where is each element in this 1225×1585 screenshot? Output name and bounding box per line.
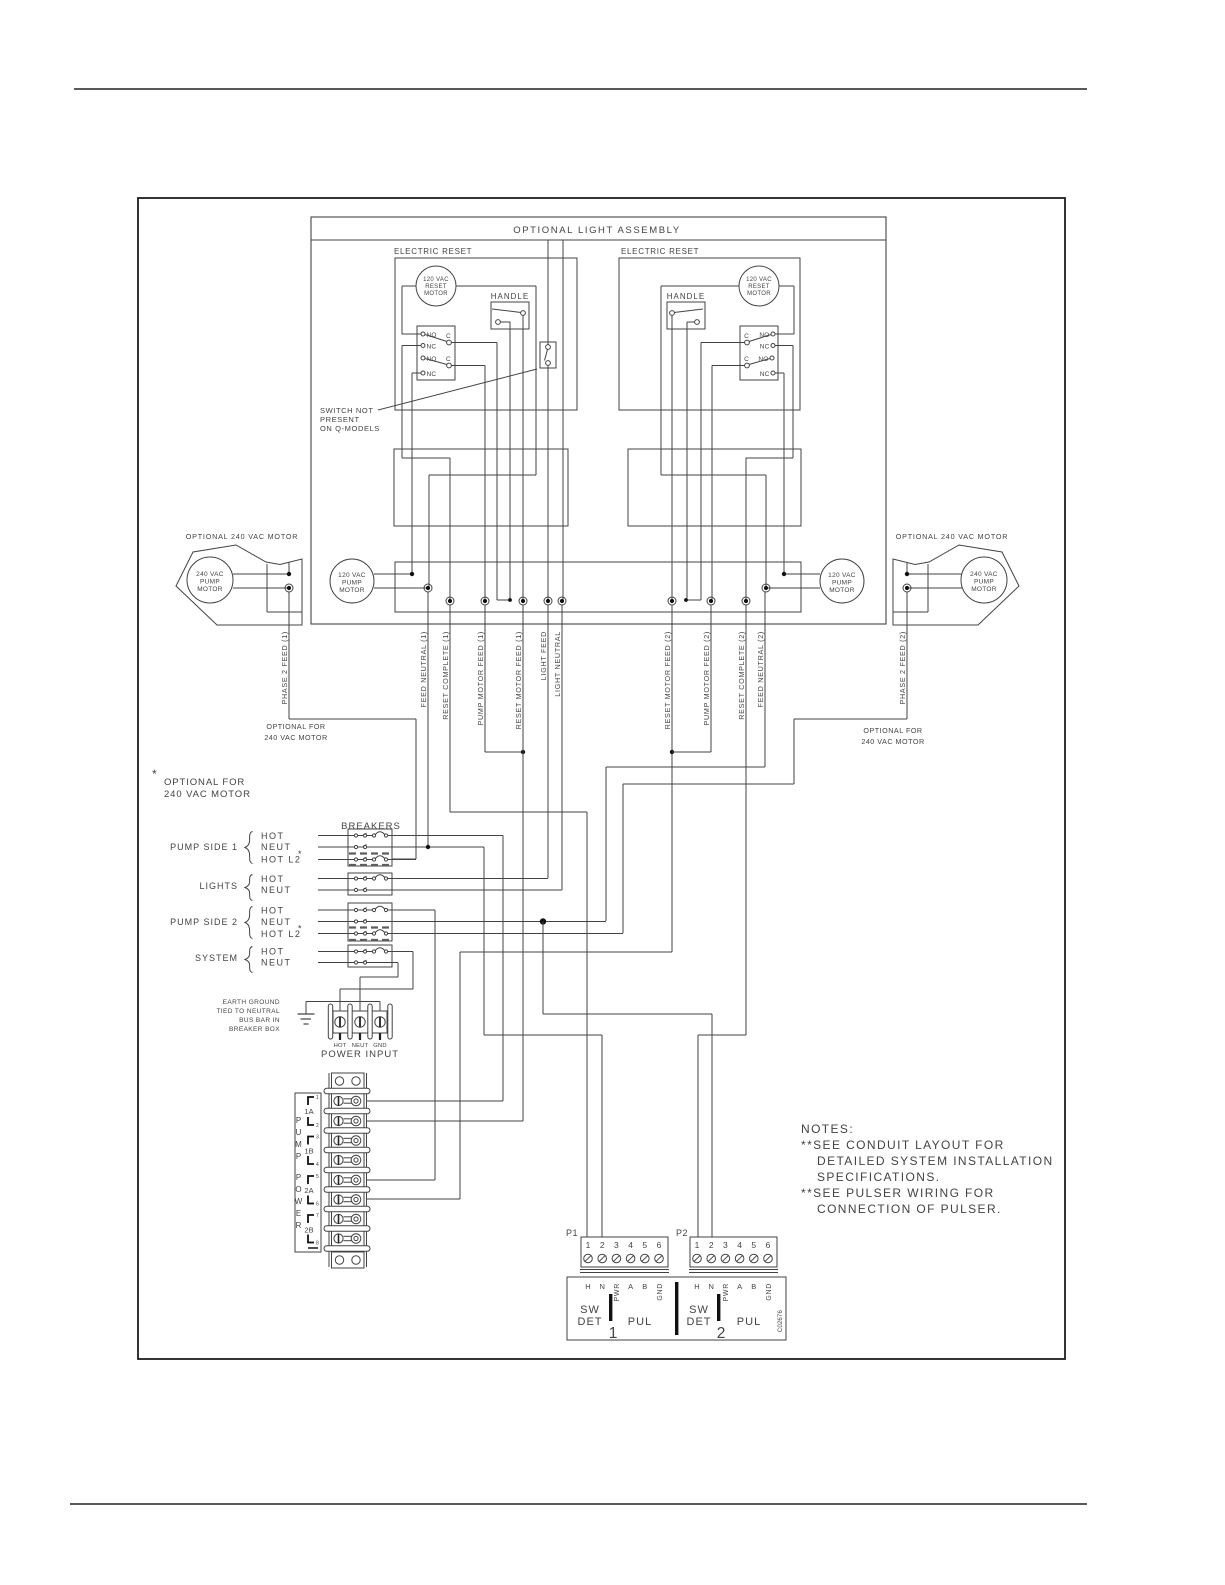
wire light feed drop: [547, 240, 549, 345]
wire reset motor feed 1 run: [522, 605, 524, 1121]
svg-text:1B: 1B: [304, 1147, 313, 1156]
wire C2 right down (pump motor feed 2): [712, 365, 745, 367]
wire 240 motor right neutral: [907, 587, 962, 589]
svg-text:HOT L2: HOT L2: [261, 855, 301, 865]
svg-text:R: R: [296, 1221, 302, 1230]
svg-text:RESET COMPLETE (2): RESET COMPLETE (2): [737, 631, 746, 720]
svg-text:6: 6: [766, 1240, 771, 1250]
callout leader line: [378, 369, 537, 410]
breaker pump side 1 HOT pole: [318, 835, 354, 837]
svg-text:OPTIONAL 240 VAC MOTOR: OPTIONAL 240 VAC MOTOR: [186, 532, 299, 541]
svg-text:PHASE 2 FEED (2): PHASE 2 FEED (2): [898, 631, 907, 705]
terminal light feed: [544, 597, 552, 605]
wire light neutral drop: [562, 240, 564, 601]
svg-text:MOTOR: MOTOR: [424, 291, 448, 297]
electric reset box left: [395, 258, 577, 410]
motor 240 VAC PUMP MOTOR left: [187, 557, 233, 603]
svg-text:240 VAC MOTOR: 240 VAC MOTOR: [861, 737, 924, 746]
svg-text:A: A: [737, 1282, 742, 1291]
svg-text:RESET: RESET: [425, 284, 447, 290]
240 VAC motor outline left: [176, 545, 302, 625]
breaker PUMP SIDE 2 box: [348, 903, 392, 941]
svg-text:GND: GND: [657, 1283, 664, 1301]
wire reset motor right terminal to NO1 right: [779, 285, 794, 287]
svg-text:DET: DET: [687, 1316, 712, 1328]
svg-text:PUMP MOTOR FEED (1): PUMP MOTOR FEED (1): [476, 631, 485, 726]
svg-text:1: 1: [316, 1095, 319, 1101]
svg-text:8: 8: [316, 1241, 319, 1247]
svg-text:*: *: [298, 924, 302, 934]
wire 240 motor left neutral: [233, 587, 289, 589]
wire phase 2 feed 1: [288, 592, 290, 719]
wire pump side 2 HOT L2 stub: [388, 933, 623, 935]
optional light assembly enclosure: [311, 217, 886, 624]
svg-text:2: 2: [600, 1240, 605, 1250]
handle lower contact right: [695, 320, 700, 325]
wire pump side 2 NEUT to P2 pin 2: [542, 922, 544, 1015]
wire reset motor feed 2 run: [671, 605, 673, 952]
wire reset complete 2 run: [745, 605, 747, 1035]
svg-text:NC: NC: [427, 371, 437, 378]
svg-text:2A: 2A: [304, 1186, 313, 1195]
center divider bar: [675, 1282, 678, 1335]
svg-text:*: *: [298, 849, 302, 859]
svg-text:P: P: [296, 1152, 301, 1161]
lamp assembly box left: [394, 449, 568, 526]
svg-text:6: 6: [316, 1202, 319, 1208]
terminal pump motor feed 2: [707, 597, 715, 605]
label box mark: [308, 1247, 318, 1249]
svg-text:PUMP SIDE 2: PUMP SIDE 2: [170, 917, 238, 927]
motor 240 VAC PUMP MOTOR right: [961, 557, 1007, 603]
svg-text:MOTOR: MOTOR: [747, 291, 771, 297]
wire feed neutral 1 drop: [427, 592, 429, 847]
svg-text:2: 2: [316, 1123, 319, 1129]
pump power top plate: [332, 1073, 365, 1089]
junction 240 left hot: [287, 572, 291, 576]
pump power terminal 6: [334, 1195, 343, 1204]
svg-text:SW: SW: [689, 1304, 709, 1316]
brace system: [245, 947, 253, 973]
brace pump side 2: [245, 907, 253, 939]
contact NC2 left: [421, 371, 425, 375]
wire system HOT to power input: [388, 951, 413, 953]
svg-text:**SEE CONDUIT LAYOUT FOR: **SEE CONDUIT LAYOUT FOR: [801, 1138, 1005, 1152]
svg-text:*: *: [152, 767, 157, 781]
wire pump side 2 NEUT bus: [367, 921, 606, 923]
handle switch box right: [667, 302, 705, 329]
wire handle lower contact down: [509, 322, 511, 600]
wire C1 right down: [701, 342, 745, 344]
terminal reset motor feed 1: [519, 597, 527, 605]
svg-text:3: 3: [614, 1240, 619, 1250]
svg-text:P2: P2: [676, 1228, 688, 1238]
svg-text:2: 2: [717, 1325, 726, 1342]
terminal phase 2 feed 1: [285, 584, 293, 592]
svg-text:H: H: [585, 1282, 590, 1291]
wire pump side 1 HOT L2 stub: [388, 859, 416, 861]
svg-text:P: P: [296, 1116, 301, 1125]
wire feed neutral 2 run: [764, 592, 766, 767]
junction pump motor feed 2 / reset motor feed 2: [670, 750, 674, 754]
group 1A brackets: [308, 1097, 314, 1105]
breaker LIGHTS box: [348, 873, 392, 895]
group 2A brackets: [308, 1176, 314, 1184]
pump power terminal 7: [334, 1214, 343, 1223]
svg-text:PUMP: PUMP: [200, 579, 220, 586]
svg-text:120 VAC: 120 VAC: [423, 277, 449, 283]
svg-text:NC: NC: [760, 371, 770, 378]
junction right pump hot: [782, 572, 786, 576]
svg-text:PHASE 2 FEED (1): PHASE 2 FEED (1): [280, 631, 289, 705]
svg-text:LIGHT FEED: LIGHT FEED: [539, 631, 548, 680]
handle switch blade left: [492, 309, 521, 313]
wire right pump motor hot: [784, 573, 820, 575]
page top rule: [74, 88, 1087, 90]
svg-text:FEED NEUTRAL (1): FEED NEUTRAL (1): [419, 631, 428, 707]
svg-text:NOTES:: NOTES:: [801, 1122, 854, 1136]
wire NC1-left jog to reset complete terminal: [402, 457, 450, 459]
240 motor left junction box: [266, 564, 268, 612]
svg-text:HOT: HOT: [261, 831, 285, 841]
power input terminal block: [333, 1011, 387, 1033]
svg-text:MOTOR: MOTOR: [971, 586, 997, 593]
svg-text:P1: P1: [566, 1228, 578, 1238]
breaker system NEUT pole: [318, 962, 354, 964]
svg-text:C02676: C02676: [778, 1310, 784, 1333]
svg-text:O: O: [295, 1185, 301, 1194]
svg-text:NEUT: NEUT: [261, 958, 292, 968]
svg-text:5: 5: [316, 1174, 319, 1180]
svg-text:LIGHT NEUTRAL: LIGHT NEUTRAL: [553, 631, 562, 697]
240 VAC motor outline right: [893, 545, 1019, 625]
motor 120 VAC RESET MOTOR left: [416, 266, 456, 306]
svg-text:FEED NEUTRAL (2): FEED NEUTRAL (2): [756, 631, 765, 707]
svg-text:TIED TO NEUTRAL: TIED TO NEUTRAL: [216, 1008, 280, 1015]
contact block right (NO/NC): [740, 326, 778, 380]
svg-text:PWR: PWR: [614, 1283, 621, 1301]
wire NC1-right jog to reset complete terminal 2: [746, 457, 793, 459]
separator bar SW DET 1: [609, 1294, 612, 1321]
svg-text:C: C: [446, 356, 451, 363]
svg-text:PUMP: PUMP: [974, 579, 994, 586]
contact NO2 left: [421, 356, 425, 360]
power input lower stubs: [339, 1033, 341, 1040]
svg-text:BUS BAR IN: BUS BAR IN: [239, 1017, 280, 1024]
pump power terminal 1: [334, 1096, 343, 1105]
svg-text:ELECTRIC RESET: ELECTRIC RESET: [621, 247, 699, 256]
wire light neutral run: [561, 605, 563, 890]
relay blade NO1-C1 right: [749, 335, 771, 342]
svg-text:OPTIONAL 240 VAC MOTOR: OPTIONAL 240 VAC MOTOR: [896, 532, 1009, 541]
ground symbol: [305, 1002, 307, 1014]
svg-text:OPTIONAL FOR: OPTIONAL FOR: [164, 777, 245, 788]
optional light assembly title divider: [311, 239, 886, 241]
svg-text:SW: SW: [580, 1304, 600, 1316]
svg-text:4: 4: [737, 1240, 742, 1250]
brace lights: [245, 875, 253, 901]
svg-text:240 VAC MOTOR: 240 VAC MOTOR: [264, 733, 327, 742]
svg-text:PWR: PWR: [723, 1283, 730, 1301]
svg-text:4: 4: [316, 1162, 319, 1168]
svg-text:NC: NC: [427, 344, 437, 351]
svg-text:C: C: [446, 333, 451, 340]
contact NO2 right: [770, 356, 774, 360]
svg-text:ON Q-MODELS: ON Q-MODELS: [320, 424, 380, 433]
svg-text:OPTIONAL LIGHT ASSEMBLY: OPTIONAL LIGHT ASSEMBLY: [513, 225, 681, 236]
svg-text:C: C: [744, 333, 749, 340]
pulser interface box: [567, 1277, 786, 1340]
svg-text:HOT: HOT: [261, 947, 285, 957]
separator bar SW DET 2: [717, 1294, 720, 1321]
svg-text:MOTOR: MOTOR: [339, 587, 365, 594]
wire NC1 to reset complete 1: [402, 345, 421, 347]
pump power terminal 2: [334, 1116, 343, 1125]
svg-text:N: N: [708, 1282, 713, 1291]
svg-text:OPTIONAL FOR: OPTIONAL FOR: [863, 726, 922, 735]
svg-text:RESET COMPLETE (1): RESET COMPLETE (1): [441, 631, 450, 720]
junction node left: [508, 598, 512, 602]
breaker lights HOT pole: [318, 878, 354, 880]
q-model switch box left: [540, 342, 556, 368]
svg-text:RESET MOTOR FEED (1): RESET MOTOR FEED (1): [514, 631, 523, 729]
junction left pump hot: [410, 572, 414, 576]
svg-text:DETAILED SYSTEM INSTALLATION: DETAILED SYSTEM INSTALLATION: [817, 1154, 1054, 1168]
svg-text:HOT: HOT: [261, 906, 285, 916]
handle switch box left: [491, 302, 529, 329]
pump power terminal 5: [334, 1175, 343, 1184]
terminal light neutral: [558, 597, 566, 605]
pump power terminal 8: [334, 1234, 343, 1243]
breaker pump side 1 NEUT pole: [318, 846, 354, 848]
svg-text:SYSTEM: SYSTEM: [195, 953, 238, 963]
wire left pump motor hot: [374, 573, 412, 575]
handle lower contact left: [496, 320, 501, 325]
svg-text:1: 1: [586, 1240, 591, 1250]
svg-text:SPECIFICATIONS.: SPECIFICATIONS.: [817, 1170, 940, 1184]
wire lights HOT to light feed: [388, 878, 548, 880]
junction feed neutral 1 / breaker neut: [426, 845, 430, 849]
wire handle blade right down (reset motor feed 2): [671, 316, 673, 602]
svg-text:M: M: [295, 1140, 302, 1149]
svg-text:SWITCH NOT: SWITCH NOT: [320, 406, 374, 415]
svg-text:LIGHTS: LIGHTS: [199, 881, 238, 891]
motor 120 VAC PUMP MOTOR left: [330, 559, 374, 603]
contact NC2 right: [771, 371, 775, 375]
terminal feed neutral 2: [762, 584, 770, 592]
wire C1 down: [452, 342, 498, 344]
wire right pump motor neutral: [766, 587, 820, 589]
svg-text:NEUT: NEUT: [261, 885, 292, 895]
wire lights NEUT to light neutral: [367, 889, 562, 891]
svg-text:H: H: [694, 1282, 699, 1291]
wire reset complete 1 run: [449, 605, 451, 812]
page bottom rule: [70, 1503, 1087, 1505]
wire pump side 1 HOT to terminal 1: [388, 835, 503, 837]
svg-text:RESET: RESET: [748, 284, 770, 290]
terminal phase 2 feed 2: [903, 584, 911, 592]
svg-text:HOT L2: HOT L2: [261, 929, 301, 939]
pump power separator bars: [324, 1088, 370, 1094]
svg-text:B: B: [642, 1282, 647, 1291]
terminal pump motor feed 1: [481, 597, 489, 605]
240 motor right junction box: [927, 564, 929, 612]
wire pump side 1 NEUT to P1 pin 2: [483, 847, 485, 1035]
svg-text:240 VAC MOTOR: 240 VAC MOTOR: [164, 789, 251, 800]
contact block left (NO/NC): [417, 326, 455, 380]
svg-text:6: 6: [657, 1240, 662, 1250]
terminal reset complete 1: [446, 597, 454, 605]
svg-text:7: 7: [316, 1213, 319, 1219]
wire NC2 right to pump motor hot 2: [775, 372, 784, 374]
handle switch blade right: [674, 309, 703, 313]
terminal feed neutral 1: [424, 584, 432, 592]
svg-text:PUMP MOTOR FEED (2): PUMP MOTOR FEED (2): [702, 631, 711, 726]
wire 240 motor left hot: [233, 573, 289, 575]
svg-text:RESET MOTOR FEED (2): RESET MOTOR FEED (2): [663, 631, 672, 729]
svg-text:NEUT: NEUT: [261, 917, 292, 927]
wire phase 2 feed 2 run: [906, 592, 908, 719]
svg-text:PUMP SIDE 1: PUMP SIDE 1: [170, 842, 238, 852]
svg-text:120 VAC: 120 VAC: [746, 277, 772, 283]
drawing frame: [138, 198, 1065, 1359]
breaker pump side 2 NEUT pole: [318, 921, 354, 923]
svg-text:PRESENT: PRESENT: [320, 415, 360, 424]
svg-text:BREAKER BOX: BREAKER BOX: [229, 1026, 280, 1033]
lamp assembly box right: [628, 449, 801, 526]
wire system NEUT to power input: [367, 962, 398, 964]
relay blade NO2-C2 left: [425, 359, 447, 365]
breaker pump side 2 HOT L2 pole: [318, 933, 354, 935]
terminal reset complete 2: [742, 597, 750, 605]
wire pump side 2 HOT to terminal 5: [388, 909, 435, 911]
svg-text:OPTIONAL FOR: OPTIONAL FOR: [266, 722, 325, 731]
wire left pump motor neutral: [374, 587, 428, 589]
svg-text:NEUT: NEUT: [261, 842, 292, 852]
svg-text:3: 3: [316, 1135, 319, 1141]
svg-text:U: U: [296, 1128, 302, 1137]
svg-text:P: P: [296, 1173, 301, 1182]
wire ground to GND terminal: [306, 1001, 380, 1003]
wire pump side 1 NEUT bus: [367, 846, 484, 848]
pump power label box: [295, 1093, 321, 1252]
svg-text:5: 5: [642, 1240, 647, 1250]
svg-text:NC: NC: [760, 344, 770, 351]
svg-text:PUMP: PUMP: [832, 580, 852, 587]
svg-text:POWER INPUT: POWER INPUT: [321, 1049, 399, 1060]
svg-text:HANDLE: HANDLE: [667, 292, 705, 301]
svg-text:5: 5: [751, 1240, 756, 1250]
wire reset motor right terminal down (feed neutral 1): [456, 285, 536, 287]
svg-text:4: 4: [628, 1240, 633, 1250]
svg-text:N: N: [599, 1282, 604, 1291]
svg-text:W: W: [295, 1197, 303, 1206]
power input GND screw: [375, 1017, 385, 1027]
junction pump side 2 NEUT: [540, 918, 546, 924]
group 1B brackets: [308, 1137, 314, 1145]
svg-text:3: 3: [723, 1240, 728, 1250]
svg-text:PUMP: PUMP: [342, 580, 362, 587]
svg-text:1: 1: [695, 1240, 700, 1250]
svg-text:A: A: [628, 1282, 633, 1291]
breaker SYSTEM box: [348, 945, 392, 967]
contact NC1 left: [421, 344, 425, 348]
breaker pump side 1 dashed optional bars: [349, 852, 391, 854]
terminal reset motor feed 2: [668, 597, 676, 605]
breaker system HOT pole: [318, 951, 354, 953]
wire C2 down (pump motor feed 1): [452, 365, 486, 367]
pump power terminal 4: [334, 1155, 343, 1164]
brace pump side 1: [245, 832, 253, 864]
svg-text:GND: GND: [766, 1283, 773, 1301]
motor 120 VAC RESET MOTOR right: [739, 266, 779, 306]
svg-text:C: C: [744, 356, 749, 363]
svg-text:1: 1: [609, 1325, 618, 1342]
power input HOT screw: [335, 1017, 345, 1027]
pump power terminal block rails: [328, 1073, 330, 1267]
wire handle lower contact right down: [686, 322, 688, 600]
wire feed neutral 2 jog: [661, 474, 766, 476]
breaker PUMP SIDE 1 box: [348, 829, 392, 866]
breaker pump side 1 HOT L2 pole: [318, 859, 354, 861]
contact NO1 left: [421, 332, 425, 336]
svg-text:CONNECTION OF PULSER.: CONNECTION OF PULSER.: [817, 1202, 1002, 1216]
svg-text:2: 2: [709, 1240, 714, 1250]
wire handle blade down (reset motor feed 1): [522, 316, 524, 602]
svg-text:MOTOR: MOTOR: [197, 586, 223, 593]
wire pump motor feed 2 run: [710, 605, 712, 752]
svg-text:ELECTRIC RESET: ELECTRIC RESET: [394, 247, 472, 256]
svg-text:PUL: PUL: [628, 1316, 652, 1328]
svg-text:1A: 1A: [304, 1107, 313, 1116]
wire 240 motor right hot: [907, 573, 962, 575]
wire NC1 right to reset complete 2: [775, 345, 793, 347]
svg-text:120 VAC: 120 VAC: [338, 572, 366, 579]
electric reset box right: [619, 258, 800, 410]
junction node right: [684, 598, 688, 602]
relay blade NO2-C2 right: [749, 359, 770, 365]
wire NC2 to pump motor hot 1: [412, 372, 421, 374]
breaker pump side 2 HOT pole: [318, 909, 354, 911]
relay blade NO1-C1 left: [425, 335, 447, 342]
breaker lights NEUT pole: [318, 889, 354, 891]
svg-text:PUL: PUL: [737, 1316, 761, 1328]
wire reset motor left terminal to NO1: [402, 285, 416, 287]
svg-text:DET: DET: [578, 1316, 603, 1328]
wire light feed run: [547, 605, 549, 878]
terminal strip bus: [395, 562, 801, 612]
svg-text:E: E: [296, 1209, 301, 1218]
svg-text:EARTH GROUND: EARTH GROUND: [223, 999, 280, 1006]
svg-text:**SEE PULSER WIRING FOR: **SEE PULSER WIRING FOR: [801, 1186, 995, 1200]
svg-text:2B: 2B: [304, 1226, 313, 1235]
svg-text:B: B: [751, 1282, 756, 1291]
svg-text:240 VAC: 240 VAC: [196, 571, 224, 578]
contact NO1 right: [771, 332, 775, 336]
svg-text:HOT: HOT: [261, 874, 285, 884]
svg-text:HANDLE: HANDLE: [491, 292, 529, 301]
pump power bottom plate: [332, 1252, 365, 1268]
svg-text:240 VAC: 240 VAC: [970, 571, 998, 578]
junction pump motor feed 1 / reset motor feed 1: [521, 750, 525, 754]
power input NEUT screw: [355, 1017, 365, 1027]
q-model switch blade: [545, 350, 548, 361]
wire feed neutral 1 jog: [429, 474, 536, 476]
wire reset motor left terminal down (feed neutral 2): [661, 285, 739, 287]
svg-text:120 VAC: 120 VAC: [828, 572, 856, 579]
motor 120 VAC PUMP MOTOR right: [820, 559, 864, 603]
group 2B brackets: [308, 1215, 314, 1223]
